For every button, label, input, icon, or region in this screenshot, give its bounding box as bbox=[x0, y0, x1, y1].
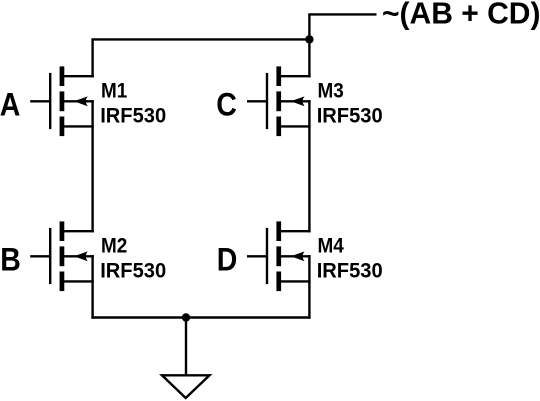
wire: top rail connecting M1 and M3 drains bbox=[93, 39, 310, 77]
junction: output node on top rail bbox=[305, 35, 313, 43]
wire: ground rail connecting M2 and M4 sources bbox=[91, 316, 310, 318]
wire: stub from ground rail to ground symbol bbox=[185, 316, 187, 375]
svg-text:M2: M2 bbox=[101, 235, 127, 258]
svg-text:A: A bbox=[0, 87, 20, 123]
wire: M1 source/body down to M2 drain bbox=[91, 100, 93, 232]
junction: ground node on bottom rail bbox=[182, 313, 190, 321]
svg-text:M3: M3 bbox=[318, 80, 344, 103]
transistor M3 bbox=[247, 66, 311, 136]
transistor M2 bbox=[30, 221, 94, 291]
svg-text:M1: M1 bbox=[101, 80, 128, 103]
ground bbox=[162, 375, 210, 398]
svg-text:D: D bbox=[217, 242, 238, 278]
svg-text:C: C bbox=[216, 87, 237, 123]
wire: M3 source/body down to M4 drain bbox=[308, 100, 310, 232]
wire: M4 source/body down to ground rail bbox=[308, 255, 310, 319]
transistor M4 bbox=[247, 221, 311, 291]
svg-text:B: B bbox=[0, 242, 21, 278]
wire: output stub from top-rail junction to output label bbox=[309, 14, 376, 40]
transistor M1 bbox=[30, 66, 94, 136]
svg-text:IRF530: IRF530 bbox=[100, 259, 166, 282]
svg-text:M4: M4 bbox=[318, 235, 345, 258]
svg-text:~(AB + CD): ~(AB + CD) bbox=[382, 0, 540, 31]
wire: M2 source/body down to ground rail bbox=[91, 255, 93, 319]
svg-text:IRF530: IRF530 bbox=[317, 259, 383, 282]
svg-text:IRF530: IRF530 bbox=[100, 104, 166, 127]
svg-text:IRF530: IRF530 bbox=[317, 104, 383, 127]
